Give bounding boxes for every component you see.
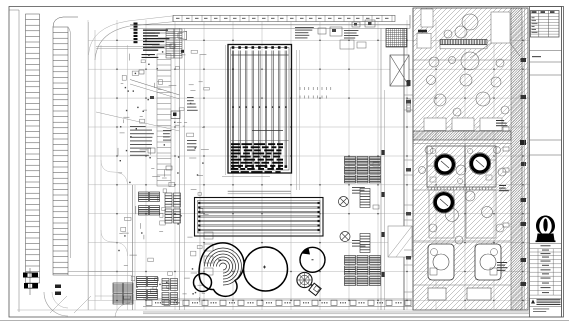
filter tank T3 — [433, 192, 455, 214]
section marker A flags — [23, 268, 38, 295]
signature table — [530, 244, 562, 296]
rooftop units — [340, 20, 375, 49]
balance tank court B2 — [475, 244, 501, 280]
intake grille bar — [440, 40, 487, 45]
filter tank T1 — [434, 154, 456, 176]
seating block NW pair — [139, 192, 160, 215]
legend / notes cluster NW — [142, 30, 187, 59]
escalator block — [166, 29, 182, 58]
leisure pool — [199, 243, 287, 296]
balance tank court B1 — [428, 244, 454, 280]
roof canopy strip — [173, 15, 395, 21]
west wing scatter marks — [118, 50, 209, 302]
pool deck edges — [226, 45, 300, 190]
plant internal walls — [413, 60, 511, 285]
east wall — [381, 8, 413, 310]
bottom road arcs — [17, 292, 560, 317]
plant east dense strip — [511, 8, 522, 310]
column dots — [116, 40, 523, 301]
road loop curves — [101, 45, 128, 310]
stair X-box — [390, 55, 409, 86]
hall south wall — [68, 272, 530, 314]
plant white cutouts — [417, 9, 520, 238]
parking row P1 — [26, 14, 40, 283]
competition pool — [228, 45, 292, 174]
site boundary line — [9, 10, 19, 312]
plant equipment labels — [503, 127, 509, 227]
deck tick rows — [300, 87, 331, 99]
tank room tick row — [428, 188, 492, 191]
tank room fittings — [427, 148, 496, 183]
plant corridor dense band — [413, 131, 511, 140]
corridor stair strip — [407, 80, 411, 112]
west rooms of plant — [404, 95, 413, 292]
equipment cluster N — [295, 27, 358, 39]
locker strip E — [360, 189, 370, 253]
fan symbol F2 — [340, 232, 350, 242]
west wing symbols — [139, 70, 180, 170]
title block frame — [530, 7, 562, 318]
parking row P3 — [157, 54, 171, 186]
rooftop grille — [386, 29, 407, 48]
plant roof cutout row — [424, 118, 502, 131]
fan symbol F1 — [339, 197, 349, 207]
plant annotations E — [496, 120, 526, 271]
corridor fixtures — [187, 97, 213, 275]
company stamp — [530, 299, 562, 313]
title block rows upper — [530, 50, 562, 155]
water slide — [297, 272, 321, 295]
seating block SW group — [113, 277, 178, 305]
spa pool circle — [300, 247, 325, 272]
plant thin circles — [419, 14, 510, 244]
seating block E lower — [345, 256, 381, 286]
access road west — [89, 16, 176, 310]
kids pool circle — [194, 274, 212, 292]
revision table — [531, 11, 560, 38]
training pool — [195, 177, 324, 237]
changing rooms diagonals — [388, 226, 412, 257]
hall north wall — [130, 15, 410, 28]
plant bottom notches — [428, 288, 491, 300]
pool dimension text block — [231, 143, 283, 173]
institute logo — [536, 216, 556, 243]
east gallery notes — [352, 150, 385, 277]
west wing walls — [133, 28, 201, 310]
plant room hatch — [413, 8, 528, 310]
stair bar NW — [134, 23, 138, 44]
lane label marks — [55, 285, 61, 296]
small rooms E of plant — [521, 8, 529, 310]
parking row P2 — [53, 17, 78, 275]
structural grid — [88, 20, 530, 310]
filter tank T2 — [469, 153, 491, 175]
locker strip W — [165, 193, 181, 223]
south colonnade strip — [143, 299, 412, 307]
ramp — [96, 80, 180, 132]
west wing room notes — [130, 126, 172, 156]
entrance wall W — [96, 47, 180, 49]
seating block E upper — [345, 157, 381, 183]
